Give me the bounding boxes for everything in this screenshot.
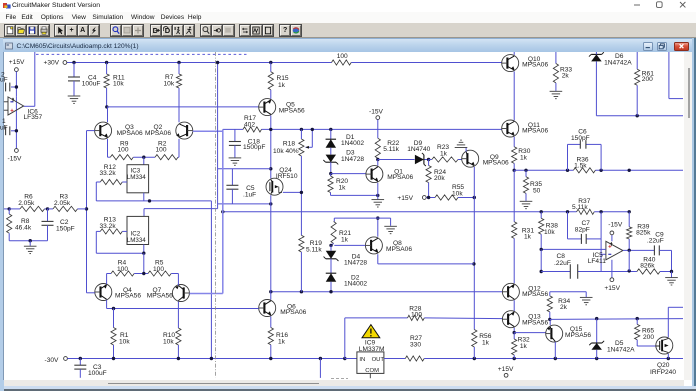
- ground C9/R40: [665, 277, 678, 279]
- wire selected vertical x222.8: [222, 129, 224, 293]
- zener D6 1N4742A: [591, 54, 602, 61]
- transistor Q10 MPSA06: [513, 52, 515, 55]
- wire IC2 feed row: [144, 208, 218, 210]
- svg-text:+15V: +15V: [604, 285, 620, 292]
- resistor R22 5.11k: [377, 120, 379, 139]
- wire D6 row y115.7: [596, 115, 683, 117]
- output rail right y318.6: [550, 318, 683, 321]
- resistor R15 1k: [269, 61, 272, 64]
- svg-text:33.2k: 33.2k: [100, 170, 117, 177]
- wire long vertical x211: [210, 201, 212, 359]
- resistor R38 10k: [540, 210, 543, 213]
- svg-text:1k: 1k: [278, 82, 286, 89]
- resistor R14 100 (designator clipped): [332, 60, 352, 65]
- svg-text:+15V: +15V: [397, 195, 413, 202]
- resistor R9 100: [108, 156, 111, 158]
- svg-text:5.11k: 5.11k: [572, 204, 588, 211]
- resistor R61 200: [636, 52, 638, 69]
- svg-text:1N4002: 1N4002: [344, 280, 367, 287]
- capacitor C4 100uF: [72, 61, 75, 64]
- svg-text:MPSA06: MPSA06: [145, 130, 171, 137]
- resistor R33 2k: [555, 52, 557, 64]
- svg-text:150pF: 150pF: [56, 226, 75, 233]
- svg-text:1N4728: 1N4728: [341, 156, 364, 163]
- svg-text:LM337M: LM337M: [359, 346, 385, 353]
- diode D2 1N4002: [330, 259, 332, 273]
- resistor R32 1k: [513, 333, 515, 339]
- svg-text:100: 100: [337, 53, 348, 60]
- wire Q24 source down to Q6: [270, 195, 272, 299]
- wire C7 to minus input: [600, 239, 602, 272]
- diode D3 1N4728: [330, 148, 332, 155]
- svg-text:5.11k: 5.11k: [383, 146, 399, 153]
- svg-text:1k: 1k: [339, 185, 347, 192]
- svg-text:82pF: 82pF: [575, 226, 590, 233]
- wire Q3 emitter: [107, 139, 109, 157]
- terminal +15V bottom: [504, 373, 508, 377]
- ground C4: [68, 95, 81, 97]
- wire R38 to C8 row: [540, 249, 542, 271]
- svg-text:R18: R18: [283, 141, 295, 148]
- svg-text:MPSA06: MPSA06: [117, 130, 143, 137]
- capacitor 2uF (clipped): [11, 86, 16, 88]
- warning triangle IC9: [362, 325, 380, 338]
- svg-text:+: +: [10, 108, 14, 114]
- bus y291.7 lower: [271, 291, 503, 293]
- wire regulator input row: [345, 358, 357, 360]
- resistor R23 1k: [429, 159, 432, 161]
- svg-text:-30V: -30V: [45, 357, 60, 364]
- svg-text:826k: 826k: [640, 263, 655, 270]
- svg-text:-15V: -15V: [8, 156, 23, 163]
- svg-text:OUT: OUT: [372, 357, 385, 363]
- svg-text:100: 100: [156, 146, 167, 153]
- resistor R17 402: [243, 127, 262, 132]
- voltage regulator IC9 LM337M: [357, 352, 384, 374]
- resistor R11 10k: [105, 61, 108, 64]
- svg-text:330: 330: [410, 341, 421, 348]
- svg-text:2.05k: 2.05k: [54, 200, 71, 207]
- resistor R7 10k: [177, 61, 180, 64]
- capacitor C5 .1uF: [231, 169, 233, 186]
- wire +30V rail: [67, 62, 332, 64]
- ground hook right of Q8: [390, 218, 392, 226]
- wire D3 to Q1 base: [330, 162, 332, 173]
- svg-text:100: 100: [411, 311, 422, 318]
- svg-text:MPSA56: MPSA56: [115, 293, 141, 300]
- svg-text:1k: 1k: [524, 234, 532, 241]
- svg-text:MPSA06: MPSA06: [522, 128, 548, 135]
- svg-text:MPSA56: MPSA56: [522, 320, 548, 327]
- capacitor C2 150pF: [47, 209, 49, 222]
- svg-text:1k: 1k: [482, 340, 490, 347]
- svg-text:2k: 2k: [560, 304, 568, 311]
- ground R35: [520, 200, 533, 202]
- capacitor C6 150pF bridge: [567, 144, 569, 170]
- wire R20 to Q1 ground: [331, 194, 378, 196]
- transistor Q8 MPSA06: [365, 237, 382, 254]
- wire output row y308.5: [107, 308, 259, 310]
- wire R4/R5 end drops: [106, 274, 108, 285]
- svg-text:1500pF: 1500pF: [243, 144, 265, 151]
- wire Q20 drain: [667, 307, 669, 337]
- terminal +15V row R55: [422, 196, 426, 200]
- resistor R4 100: [107, 273, 111, 275]
- wire Q2 base to bus (selected): [193, 130, 223, 132]
- svg-text:COM: COM: [365, 368, 379, 374]
- svg-text:10k 40%: 10k 40%: [273, 148, 299, 155]
- wire R31 column: [513, 170, 515, 222]
- svg-text:1k: 1k: [440, 151, 448, 158]
- svg-text:-15V: -15V: [608, 221, 623, 228]
- MOSFET Q24 IRF510: [266, 178, 283, 195]
- MOSFET Q20 IRFP240: [656, 337, 673, 354]
- svg-text:LF411: LF411: [588, 258, 607, 265]
- wire C9 right down: [659, 249, 671, 251]
- resistor R10 10k: [177, 302, 179, 328]
- svg-text:C8: C8: [557, 253, 566, 260]
- ground R33: [550, 90, 563, 92]
- svg-text:1k: 1k: [341, 236, 349, 243]
- svg-text:10k: 10k: [113, 80, 124, 87]
- resistor R20 1k: [328, 176, 333, 193]
- wire R28 riser: [344, 318, 346, 359]
- wire D9 row: [378, 159, 415, 161]
- ground Q1 emitter: [377, 183, 379, 196]
- transistor Q15 MPSA56: [549, 319, 551, 325]
- wire R65 to Q20 gate: [637, 345, 656, 347]
- op-amp IC6 output riser: [34, 52, 36, 106]
- wire stub x320 down: [319, 359, 321, 378]
- wire Q3/Q4 base riser: [86, 131, 88, 293]
- svg-text:MPSA56: MPSA56: [565, 332, 591, 339]
- svg-text:10k: 10k: [164, 80, 175, 87]
- resistor R6 2.05k: [4, 208, 9, 210]
- resistor R5 100: [142, 272, 145, 275]
- svg-text:10k: 10k: [544, 229, 555, 236]
- svg-text:+15V: +15V: [498, 366, 514, 373]
- bus y211.8 mid: [223, 211, 577, 213]
- svg-text:.1uF: .1uF: [243, 191, 256, 198]
- wire IC5 plus input row: [541, 248, 606, 250]
- transistor Q11 MPSA06: [502, 120, 519, 137]
- svg-text:MPSA06: MPSA06: [387, 174, 413, 181]
- capacitor C18 1500pF: [234, 129, 236, 141]
- page boundary dashed blue top: [36, 53, 247, 55]
- svg-text:10k: 10k: [452, 190, 463, 197]
- svg-text:100: 100: [117, 266, 128, 273]
- svg-text:.22uF: .22uF: [647, 237, 664, 244]
- page boundary dash-dot vertical: [214, 52, 216, 378]
- resistor R19 5.11k: [299, 235, 304, 252]
- bus y170.3: [513, 169, 516, 172]
- wire Q13 emitter junction: [513, 328, 515, 333]
- resistor R24 20k: [426, 166, 431, 183]
- resistor R21 1k: [333, 218, 335, 221]
- transistor Q5 MPSA56: [259, 99, 276, 116]
- svg-text:200: 200: [643, 334, 654, 341]
- svg-text:100: 100: [153, 266, 164, 273]
- svg-text:825k: 825k: [636, 230, 651, 237]
- transistor Q7 MPSA56: [172, 285, 189, 302]
- resistor R55 10k: [435, 195, 458, 200]
- transistor Q1 MPSA06: [366, 166, 383, 183]
- wire IC3 bottom row: [96, 200, 211, 202]
- node R9/R2 junction: [142, 156, 145, 159]
- wire R12 left down: [96, 181, 100, 183]
- resistor R40 826k: [637, 269, 660, 274]
- svg-text:20k: 20k: [434, 175, 445, 182]
- diode D9 1N4740: [415, 155, 424, 165]
- wire bias row y107: [105, 105, 108, 108]
- svg-text:10k: 10k: [163, 338, 174, 345]
- svg-text:LM334: LM334: [127, 174, 146, 181]
- svg-text:IN: IN: [359, 357, 365, 363]
- svg-text:50: 50: [533, 187, 541, 194]
- capacitor C3 100uF: [79, 359, 81, 366]
- resistor R3 2.05k: [46, 207, 49, 210]
- ground Q9 collector: [465, 148, 467, 152]
- wire IC2 bottom row: [96, 252, 144, 254]
- wire Q8 collector / R21 top: [377, 218, 379, 237]
- svg-text:uF: uF: [0, 125, 8, 132]
- capacitor C8 .22uF: [569, 264, 571, 279]
- terminal -15V left: [15, 149, 19, 153]
- svg-text:5.11k: 5.11k: [306, 246, 322, 253]
- resistor R28 100: [408, 315, 425, 320]
- op-amp IC6 LF357: [15, 97, 17, 149]
- terminal -30V: [64, 357, 68, 361]
- resistor R37 5.11k on bus: [577, 209, 595, 214]
- wire right column x669: [668, 52, 670, 99]
- resistor R35 50: [525, 170, 527, 177]
- transistor Q6 MPSA06: [259, 300, 276, 317]
- svg-text:2k: 2k: [562, 73, 570, 80]
- wire Q4 bottom: [106, 300, 108, 309]
- resistor R34 2k: [549, 292, 551, 296]
- svg-text:2.05k: 2.05k: [18, 200, 35, 207]
- resistor R30 1k: [513, 137, 515, 147]
- node R34/Q15: [548, 318, 551, 321]
- wire C8 feedback row: [541, 271, 570, 273]
- page boundary dash fragment bottom: [331, 377, 348, 379]
- IC2 LM334 current source: [127, 216, 149, 244]
- svg-text:MPSA06: MPSA06: [522, 62, 548, 69]
- capacitor C9 .22uF: [653, 245, 655, 255]
- wire Q10-Q11: [513, 71, 515, 120]
- line R28 output rail: [345, 317, 408, 319]
- resistor R39 825k: [628, 210, 631, 213]
- svg-text:LF357: LF357: [24, 114, 43, 121]
- transistor Q2 MPSA06: [176, 122, 193, 139]
- svg-text:100: 100: [118, 146, 129, 153]
- svg-text:402: 402: [244, 121, 255, 128]
- transistor Q9 MPSA06: [462, 150, 479, 167]
- op-amp IC5 LF411: [606, 241, 623, 259]
- transistor Q13 MPSA56: [502, 311, 519, 328]
- svg-text:150pF: 150pF: [571, 135, 590, 142]
- svg-text:IRF510: IRF510: [276, 173, 298, 180]
- resistor R2 100: [155, 155, 178, 160]
- node R22/D9: [376, 158, 379, 161]
- resistor R1 10k: [113, 309, 115, 328]
- svg-text:.22uF: .22uF: [554, 260, 571, 267]
- svg-text:MPSA06: MPSA06: [386, 246, 412, 253]
- svg-text:MPSA06: MPSA06: [280, 309, 306, 316]
- svg-text:+15V: +15V: [9, 59, 25, 66]
- svg-text:uF: uF: [0, 77, 8, 84]
- capacitor C7 82pF bridge: [566, 210, 569, 213]
- terminal -15V IC5: [611, 235, 613, 242]
- transistor Q4 MPSA56: [95, 284, 112, 301]
- svg-text:MPSA56: MPSA56: [279, 108, 305, 115]
- wire IC5 output: [623, 249, 655, 251]
- resistor R12 33.2k: [100, 179, 122, 184]
- wire Q20 source: [667, 354, 669, 359]
- bus -30V y358.5: [67, 358, 344, 360]
- resistor R31 1k: [512, 222, 517, 239]
- bus y129 upper: [223, 128, 243, 130]
- svg-text:IRFP240: IRFP240: [650, 369, 676, 376]
- terminal +15V IC5: [611, 260, 613, 278]
- diode D1 1N4002: [329, 128, 332, 131]
- svg-text:1N4728: 1N4728: [344, 260, 367, 267]
- svg-text:1k: 1k: [520, 343, 528, 350]
- svg-text:46.4k: 46.4k: [15, 224, 32, 231]
- wire Q9 emitter column x474: [473, 167, 475, 330]
- ground R8/C2: [24, 245, 37, 247]
- svg-text:+30V: +30V: [44, 59, 60, 66]
- wire R8/C2 bottom: [9, 240, 47, 242]
- bus y358.5 right dots: [473, 357, 476, 360]
- svg-text:-15V: -15V: [369, 108, 384, 115]
- resistor R36 1.5k on bus: [573, 168, 595, 173]
- resistor R8 46.4k: [7, 214, 12, 233]
- wire R18/R19 column: [300, 156, 302, 235]
- resistor R16 1k: [270, 316, 272, 327]
- wire feedback drop x629: [628, 250, 630, 271]
- svg-text:1N4002: 1N4002: [341, 140, 364, 147]
- svg-text:1N4742A: 1N4742A: [604, 59, 632, 66]
- diode D4 1N4728: [330, 245, 332, 250]
- wire +15V to op-amp: [15, 71, 17, 96]
- wire Q5 emitter to Q24: [270, 116, 272, 179]
- resistor R27 330: [384, 358, 405, 360]
- svg-text:MPSA06: MPSA06: [483, 160, 509, 167]
- terminal +15V left: [15, 68, 19, 72]
- IC3 LM334 current source: [143, 157, 145, 165]
- wire C5 bracket: [218, 168, 271, 170]
- svg-text:200: 200: [642, 76, 653, 83]
- ground C18: [229, 157, 242, 159]
- zener D5 1N4742A: [596, 319, 598, 343]
- svg-text:1.5k: 1.5k: [574, 163, 587, 170]
- wire +30V drop x217 to C5 bracket: [217, 63, 219, 209]
- capacitor 1uF (clipped): [11, 130, 16, 132]
- terminal -15V mid: [376, 116, 380, 120]
- wire Q8 emitter row: [377, 254, 379, 264]
- transistor Q3 MPSA06: [107, 107, 109, 122]
- svg-text:1k: 1k: [520, 154, 528, 161]
- transistor Q12 MPSA56: [502, 283, 519, 300]
- svg-text:100uF: 100uF: [88, 370, 107, 377]
- svg-text:MPSA56: MPSA56: [522, 291, 548, 298]
- svg-text:MPSA56: MPSA56: [147, 293, 173, 300]
- resistor R13 33.2k: [100, 229, 122, 234]
- svg-text:LM334: LM334: [127, 237, 146, 244]
- terminal +30V: [63, 61, 67, 65]
- wire R13 left down: [96, 230, 100, 232]
- svg-text:1N4740: 1N4740: [407, 146, 430, 153]
- svg-text:33.2k: 33.2k: [100, 223, 117, 230]
- svg-text:100uF: 100uF: [82, 80, 101, 87]
- svg-text:1k: 1k: [278, 338, 286, 345]
- potentiometer R18 10k 40%: [299, 139, 304, 156]
- resistor R65 200: [636, 319, 638, 325]
- wire Q7 base to bus (selected): [190, 293, 223, 295]
- wire Q12-Q13: [513, 300, 515, 311]
- wire Q24 to R18 column: [283, 191, 302, 193]
- ground hook R34: [550, 291, 586, 293]
- wire Q15 emitter: [554, 342, 556, 359]
- svg-text:1N4742A: 1N4742A: [607, 346, 635, 353]
- resistor R56 1k: [472, 330, 477, 348]
- svg-text:10k: 10k: [119, 338, 130, 345]
